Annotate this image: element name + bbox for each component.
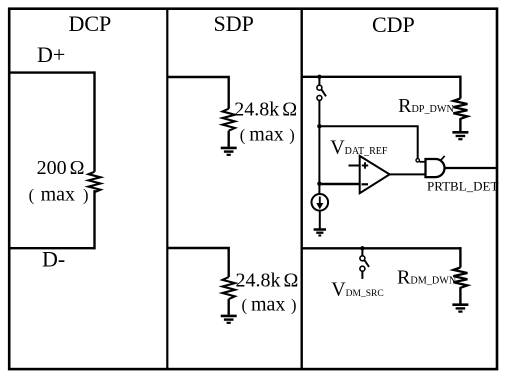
current source I_DP_SRC	[312, 194, 329, 211]
svg-text:24.8kΩ: 24.8kΩ	[234, 99, 297, 121]
svg-text:SDP: SDP	[214, 11, 254, 36]
resistor 200 ohm	[89, 172, 101, 192]
wire junction to comparator minus input	[319, 183, 359, 186]
node junction D- to switch	[360, 246, 364, 250]
switch S2 V_DM_SRC	[360, 248, 369, 279]
node junction to comparator inverting branch	[317, 124, 321, 128]
wire DCP right vertical (upper)	[93, 71, 95, 171]
wire DCP right vertical (lower)	[93, 190, 95, 249]
ground (SDP top)	[221, 148, 237, 155]
svg-text:24.8kΩ: 24.8kΩ	[236, 269, 299, 291]
resistor R_DM_DWN	[453, 268, 467, 288]
DCP/SDP divider wall	[166, 8, 168, 370]
wire R_DP_DWN to ground	[459, 118, 461, 131]
wire SDP D+ stub	[167, 77, 228, 109]
wire R_DM_DWN to ground	[459, 287, 461, 303]
resistor 24.8k (bottom)	[223, 277, 235, 299]
wire bubble to gate	[419, 161, 425, 163]
gate input bubble	[416, 159, 419, 162]
svg-text:CDP: CDP	[372, 12, 415, 37]
wire resistor to ground (SDP bottom)	[227, 299, 229, 315]
wire gate output to port	[445, 167, 497, 169]
svg-text:D+: D+	[37, 42, 65, 67]
svg-text:200Ω: 200Ω	[37, 157, 85, 179]
node junction D+ to switch	[317, 75, 321, 79]
switch S1 on D+ sense path	[317, 77, 326, 127]
wire DCP D- rail	[9, 247, 95, 249]
SDP/CDP divider wall	[301, 8, 303, 370]
wire DCP D+ rail	[9, 71, 95, 73]
wire current source to ground	[319, 211, 321, 229]
node junction to comparator input	[317, 182, 321, 186]
svg-text:D-: D-	[42, 247, 65, 272]
svg-text:PRTBL_DET: PRTBL_DET	[427, 179, 499, 194]
svg-text:DCP: DCP	[69, 11, 112, 36]
resistor R_DP_DWN	[453, 99, 467, 119]
wire V_DAT_REF stub to plus input	[349, 165, 360, 167]
wire CDP D+ rail	[302, 76, 461, 78]
wire junction to gate bubble	[319, 126, 417, 158]
wire resistor to ground (SDP top)	[227, 131, 229, 147]
wire SDP D- stub	[167, 248, 228, 277]
gate PRTBL_DET (AND with inverted input)	[426, 156, 445, 177]
wire D+ rail to R_DP_DWN	[459, 76, 461, 99]
ground (SDP bottom)	[221, 316, 237, 323]
ground (R_DP_DWN)	[452, 132, 468, 139]
wire CDP D- rail	[302, 247, 461, 249]
resistor 24.8k (top)	[223, 109, 235, 131]
wire switch leg down to current source	[318, 127, 320, 194]
ground (R_DM_DWN)	[452, 305, 468, 312]
ground (current source)	[314, 230, 326, 236]
op-amp comparator U1	[360, 156, 390, 193]
wire D- rail to R_DM_DWN	[459, 247, 461, 267]
wire comparator output to gate	[390, 173, 426, 175]
